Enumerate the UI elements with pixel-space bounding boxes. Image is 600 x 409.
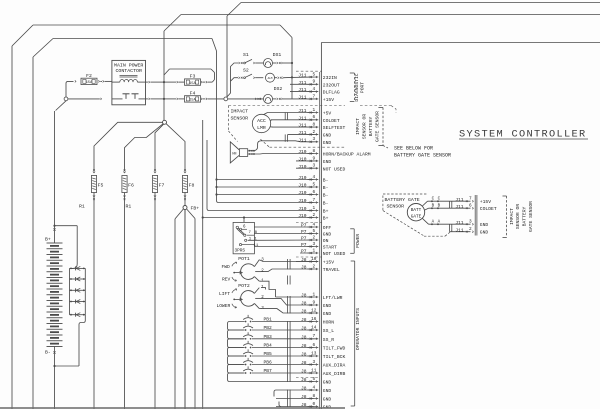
svg-text:B+: B+: [45, 237, 51, 243]
svg-text:S2: S2: [243, 68, 249, 74]
svg-text:SELFTEST: SELFTEST: [323, 125, 346, 131]
svg-text:IMPACT: IMPACT: [231, 109, 249, 115]
svg-text:P7: P7: [301, 236, 307, 242]
svg-text:J8: J8: [301, 369, 307, 375]
svg-text:BATT: BATT: [411, 208, 422, 213]
svg-text:J8: J8: [301, 293, 307, 299]
svg-text:OPERATOR INPUTS: OPERATOR INPUTS: [355, 308, 361, 350]
svg-text:J8: J8: [301, 352, 307, 358]
svg-text:B-: B-: [323, 185, 329, 191]
svg-text:J8: J8: [301, 326, 307, 332]
svg-text:SEE BELOW FOR: SEE BELOW FOR: [394, 145, 433, 151]
svg-text:GATE SENSOR: GATE SENSOR: [528, 201, 534, 232]
svg-text:7: 7: [248, 231, 251, 235]
svg-text:B-: B-: [45, 350, 51, 356]
svg-text:6: 6: [243, 225, 246, 229]
svg-text:B+: B+: [323, 209, 329, 215]
svg-text:F7: F7: [159, 183, 165, 189]
svg-text:NOT USED: NOT USED: [323, 166, 346, 172]
svg-text:J11: J11: [455, 220, 464, 226]
svg-text:J8: J8: [301, 377, 307, 383]
svg-text:232OUT: 232OUT: [323, 82, 340, 88]
svg-text:J11: J11: [298, 108, 307, 114]
svg-text:J11: J11: [298, 130, 307, 136]
svg-text:GND: GND: [323, 133, 332, 139]
svg-text:GND: GND: [480, 222, 489, 228]
svg-text:P7: P7: [301, 242, 307, 248]
svg-text:START: START: [323, 245, 337, 251]
svg-text:J10: J10: [298, 198, 307, 204]
svg-text:ON: ON: [323, 238, 329, 244]
svg-text:GND: GND: [323, 232, 332, 238]
svg-text:GND: GND: [323, 397, 332, 403]
svg-text:DLFLAG: DLFLAG: [323, 90, 340, 96]
svg-text:P7: P7: [301, 223, 307, 229]
svg-text:REV: REV: [222, 277, 231, 283]
svg-text:PORT: PORT: [360, 82, 366, 93]
svg-text:3PRS: 3PRS: [235, 249, 246, 254]
svg-text:B-: B-: [323, 193, 329, 199]
svg-text:J11: J11: [298, 73, 307, 79]
svg-text:J8: J8: [301, 360, 307, 366]
svg-text:ALM: ALM: [268, 77, 273, 80]
svg-text:J10: J10: [298, 175, 307, 181]
svg-text:SENSOR: SENSOR: [387, 204, 405, 210]
svg-text:J8: J8: [301, 265, 307, 271]
svg-text:OFF: OFF: [323, 225, 332, 231]
svg-text:F8: F8: [189, 183, 195, 189]
svg-text:2: 2: [469, 227, 472, 232]
svg-text:COLDET: COLDET: [480, 206, 497, 212]
svg-text:+15V: +15V: [480, 199, 491, 205]
svg-text:P7: P7: [301, 229, 307, 235]
svg-text:TRAVEL: TRAVEL: [323, 267, 340, 273]
svg-text:BATTERY GATE SENSOR: BATTERY GATE SENSOR: [394, 152, 451, 158]
svg-text:15A: 15A: [189, 99, 196, 103]
svg-text:J8: J8: [301, 301, 307, 307]
svg-text:FB+: FB+: [191, 206, 200, 212]
svg-text:TILT_BCK: TILT_BCK: [323, 354, 346, 360]
svg-text:J11: J11: [455, 204, 464, 210]
svg-text:F2: F2: [86, 73, 92, 79]
svg-text:MAIN POWER: MAIN POWER: [114, 62, 143, 68]
svg-text:7: 7: [469, 197, 472, 202]
svg-text:B-: B-: [323, 178, 329, 184]
svg-text:3: 3: [469, 220, 472, 225]
svg-text:COLDET: COLDET: [323, 118, 340, 124]
svg-text:15A: 15A: [189, 82, 196, 86]
svg-text:SS_L: SS_L: [323, 328, 334, 334]
svg-text:+15V: +15V: [323, 260, 334, 266]
svg-text:J10: J10: [298, 213, 307, 219]
svg-text:1: 1: [254, 237, 257, 241]
svg-text:F4: F4: [190, 90, 196, 96]
svg-text:J8: J8: [301, 343, 307, 349]
svg-text:6: 6: [469, 204, 472, 209]
svg-text:GND: GND: [323, 388, 332, 394]
svg-text:HN: HN: [232, 153, 236, 157]
svg-text:BATTERY: BATTERY: [522, 206, 528, 226]
svg-text:DS1: DS1: [273, 52, 282, 58]
svg-text:J11: J11: [455, 227, 464, 233]
svg-text:GATE SENSOR: GATE SENSOR: [374, 111, 380, 142]
svg-text:J10: J10: [298, 183, 307, 189]
svg-text:J8: J8: [301, 309, 307, 315]
svg-text:HORN: HORN: [323, 320, 334, 326]
svg-text:232IN: 232IN: [323, 75, 337, 81]
svg-text:F6: F6: [128, 183, 134, 189]
svg-text:+15V: +15V: [323, 97, 334, 103]
svg-text:+5V: +5V: [323, 111, 332, 117]
svg-text:J8: J8: [301, 257, 307, 263]
svg-text:J8: J8: [301, 394, 307, 400]
svg-text:R1: R1: [126, 204, 132, 210]
svg-text:NOT USED: NOT USED: [323, 251, 346, 257]
svg-text:ACC: ACC: [257, 118, 266, 124]
svg-text:DIAGNOSTIC: DIAGNOSTIC: [354, 73, 360, 101]
svg-text:LIFT: LIFT: [219, 291, 230, 297]
svg-text:GND: GND: [323, 311, 332, 317]
svg-text:GND: GND: [323, 380, 332, 386]
svg-text:R1: R1: [79, 204, 85, 210]
svg-text:SENSOR: SENSOR: [231, 116, 249, 122]
svg-text:LMR: LMR: [257, 125, 266, 131]
svg-text:GND: GND: [323, 159, 332, 165]
svg-text:J11: J11: [298, 115, 307, 121]
svg-text:GND: GND: [480, 230, 489, 236]
svg-text:IMPACT: IMPACT: [355, 118, 361, 135]
svg-text:J11: J11: [298, 123, 307, 129]
svg-text:LFT/LWR: LFT/LWR: [323, 295, 343, 301]
svg-text:BATTERY: BATTERY: [368, 116, 374, 136]
svg-text:HORN/BACKUP ALARM: HORN/BACKUP ALARM: [323, 152, 371, 158]
svg-text:IMPACT: IMPACT: [509, 208, 515, 225]
svg-text:J10: J10: [298, 157, 307, 163]
svg-text:J11: J11: [298, 137, 307, 143]
svg-text:CONTACTOR: CONTACTOR: [115, 68, 141, 74]
svg-text:J10: J10: [298, 149, 307, 155]
svg-text:SS_R: SS_R: [323, 337, 334, 343]
svg-text:F5: F5: [98, 183, 104, 189]
svg-text:B-: B-: [323, 201, 329, 207]
svg-text:POT2: POT2: [238, 283, 250, 289]
svg-text:J10: J10: [298, 190, 307, 196]
svg-text:J10: J10: [298, 206, 307, 212]
svg-text:LOWER: LOWER: [217, 303, 231, 309]
svg-text:S1: S1: [243, 52, 249, 58]
svg-text:AUX_DIRB: AUX_DIRB: [323, 371, 346, 377]
svg-text:8: 8: [255, 231, 258, 235]
svg-text:POT1: POT1: [238, 256, 250, 262]
svg-text:J11: J11: [298, 95, 307, 101]
svg-text:GND: GND: [323, 303, 332, 309]
svg-text:B+: B+: [323, 216, 329, 222]
svg-text:9: 9: [312, 80, 315, 85]
svg-text:TILT_FWD: TILT_FWD: [323, 346, 346, 352]
svg-text:J8: J8: [301, 317, 307, 323]
svg-text:J11: J11: [298, 80, 307, 86]
svg-text:F3: F3: [190, 74, 196, 80]
svg-text:GATE: GATE: [411, 215, 422, 220]
svg-text:15A: 15A: [86, 81, 93, 85]
svg-text:J11: J11: [298, 87, 307, 93]
svg-text:P7: P7: [301, 249, 307, 255]
svg-text:J8: J8: [301, 386, 307, 392]
svg-text:J8: J8: [301, 334, 307, 340]
svg-text:AUX_DIRA: AUX_DIRA: [323, 363, 346, 369]
svg-text:POWER: POWER: [355, 234, 361, 248]
svg-text:GND: GND: [323, 140, 332, 146]
svg-text:BATTERY GATE: BATTERY GATE: [385, 197, 420, 203]
svg-text:J11: J11: [455, 197, 464, 203]
svg-text:FWD: FWD: [222, 264, 231, 270]
svg-text:1: 1: [261, 286, 264, 290]
svg-text:SENSOR OR: SENSOR OR: [515, 204, 521, 230]
svg-text:J10: J10: [298, 164, 307, 170]
svg-text:SENSOR OR: SENSOR OR: [362, 114, 368, 140]
svg-text:6: 6: [312, 115, 315, 120]
svg-text:DS2: DS2: [274, 86, 283, 92]
